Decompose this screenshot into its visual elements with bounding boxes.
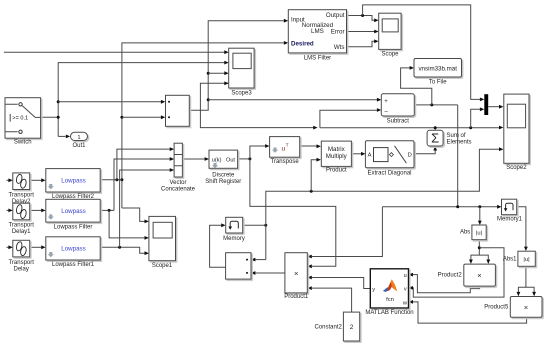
svg-text:|u|: |u| [523,257,529,263]
svg-text:Out: Out [226,157,235,163]
block Matrix Multiply (Product) [321,141,351,173]
block LMS Filter [288,10,346,62]
wire: Scope3 port4 net [200,83,313,127]
svg-text:Shift Register: Shift Register [205,179,241,185]
wire: LMS Error to Scope p2 [347,31,375,33]
wire: branch to Subtract plus input [208,99,377,101]
wire: error down to Product1 p1 [312,207,383,257]
block Vector Concatenate [161,143,196,193]
wire: Constant2 up to Product1 p4 [312,288,352,312]
svg-text:Lowpass Filter: Lowpass Filter [54,225,93,231]
wire: TD1 to LPF [30,209,42,211]
svg-text:Multiply: Multiply [326,153,348,160]
svg-text:LMS Filter: LMS Filter [304,56,331,62]
svg-text:Transport: Transport [8,223,34,229]
wire: Abs1 output split into Product5 [518,266,534,292]
wire: LMS Output net [347,16,375,21]
svg-text:T: T [286,143,289,149]
svg-text:Product: Product [326,168,347,174]
block MATLAB Function [365,269,413,316]
node: junction lpf2/vc1 [115,178,118,181]
svg-text:×: × [477,271,481,280]
svg-text:Error: Error [331,28,345,35]
wire: branch to To File [401,68,432,105]
svg-text:fcn: fcn [386,297,394,303]
svg-text:Lowpass Filter1: Lowpass Filter1 [52,262,95,268]
svg-text:Transport: Transport [8,193,34,199]
wire: Transpose to Matrix Multiply [300,145,317,147]
block Product5 [484,297,542,318]
block Transport Delay [8,240,34,272]
svg-text:Vector: Vector [169,180,186,186]
wire: LPF out [100,209,114,211]
block Discrete Shift Register [205,150,241,185]
wire: switch output [41,116,59,118]
wire: LPF1 out [100,247,144,253]
svg-text:Delay1: Delay1 [12,229,31,235]
wire: transport delay stubs [7,179,9,181]
svg-text:Transport: Transport [8,260,34,266]
svg-text:Wts: Wts [334,44,345,51]
wire: down to Scope1 p2 [109,210,145,238]
svg-text:×: × [294,269,298,278]
block Switch [5,98,41,146]
svg-text:Discrete: Discrete [212,172,235,178]
block Abs1 [503,251,535,266]
block Subtract [381,94,414,125]
svg-text:To File: To File [429,80,447,86]
wire: up to Vector Concatenate p1 [117,149,170,180]
svg-text:Lowpass: Lowpass [61,208,85,215]
wire: Product5 out to MATLAB Function w [413,302,527,323]
svg-text:Memory1: Memory1 [497,217,523,223]
block Transport Delay1 [8,203,34,235]
node: junction lpf/scope1p2 [108,209,111,212]
block Scope3 [229,48,254,96]
wire: desired net vertical x=122 to LMS Desired [122,43,284,208]
svg-text:|u|: |u| [476,231,482,237]
block Memory1 [497,199,523,223]
wire: LMS Wts to Scope p3 [347,41,375,47]
node: junction desired net / lowpass2 out [120,178,123,181]
svg-text:MATLAB Function: MATLAB Function [365,310,413,316]
wire: up to Transpose [250,146,265,159]
block Out1 [71,132,88,149]
svg-text:+: + [384,99,388,105]
svg-text:Σ: Σ [431,131,439,146]
svg-text:Out1: Out1 [72,143,86,149]
wire: TD2 to LPF2 [30,179,42,181]
block Memory [223,217,245,242]
wire: Subtract output [414,104,457,106]
svg-text:A: A [368,152,372,158]
block Constant2 [314,312,359,341]
wire: blank block out to Memory [210,225,226,267]
block Lowpass Filter [46,199,100,230]
svg-text:Subtract: Subtract [387,118,410,124]
svg-text:2: 2 [350,324,354,331]
block Transport Delay2 [8,173,34,205]
wire: Product2 out to MATLAB Function u [413,275,480,293]
wire: error down [457,105,459,207]
svg-text:Abs1: Abs1 [503,257,517,263]
node: junction LMS input net / Scope3 p3 [207,72,210,75]
svg-text:Scope3: Scope3 [231,91,252,97]
block Mux [484,94,488,115]
svg-text:Sum of: Sum of [447,133,466,139]
wire: source line to Scope3 port1 [4,51,225,53]
block Scope2 [504,94,529,171]
node: junction switch net at switch output [57,116,60,119]
block Lowpass Filter2 [46,169,100,201]
block Sum of Elements [427,130,471,146]
wire: TD to LPF1 [30,246,42,248]
wire: v net from Abs to MATLAB Function v [413,248,504,297]
wire: switch net to mux2 port1 [58,101,161,103]
block To File [414,59,462,86]
wire: staircase to Scope1 port1 [122,208,145,221]
svg-text:Product1: Product1 [284,294,309,300]
wire: Product1 out to blank block p2 [256,272,285,274]
svg-text:Abs: Abs [460,230,470,236]
svg-text:Product2: Product2 [438,272,463,278]
wire: error horizontal to Memory1 [382,206,497,208]
svg-text:y: y [372,287,375,293]
svg-text:>= 0.1: >= 0.1 [12,116,28,122]
svg-text:Delay: Delay [14,267,29,273]
node: junction switch net upper [57,100,60,103]
wire: branch to Scope3 port3 [208,72,225,74]
block Transpose [270,137,300,165]
wire: to Out1 [58,135,65,137]
svg-text:LMS: LMS [311,28,324,35]
svg-text:u: u [404,273,407,279]
block Scope1 [149,216,176,269]
wire: down to Product1 p2 [250,159,336,266]
wire: MATLAB Function y out to Product1 p3 [312,278,371,289]
wire: up to Vector Concatenate p2 [114,159,170,210]
svg-text:Transpose: Transpose [271,159,300,165]
wire: mux to Scope2 p1 [488,106,499,108]
svg-text:1: 1 [77,135,80,141]
svg-text:×: × [524,303,528,312]
wire: LPF2 out [100,179,122,181]
node: junction lpf1/vc3 [118,246,121,249]
svg-text:Constant2: Constant2 [314,325,342,331]
node: junction desired net / mux2 port2 [120,116,123,119]
wire: mux2 output up to LMS Input [189,21,283,111]
wire: error branch down into Abs [479,207,481,221]
svg-text:Lowpass: Lowpass [61,178,85,185]
wire: Sum of Elements output net [320,128,499,131]
svg-text:Scope1: Scope1 [152,263,173,269]
svg-text:Memory: Memory [223,236,245,242]
svg-text:Lowpass: Lowpass [61,246,85,253]
wire: branch to mux2 port2 [122,116,161,118]
svg-text:vnsim33b.mat: vnsim33b.mat [418,65,457,72]
svg-text:Product5: Product5 [484,305,509,311]
svg-text:Concatenate: Concatenate [161,187,196,193]
svg-text:Elements: Elements [447,140,472,146]
svg-text:Switch: Switch [14,140,32,146]
block blank (unlabeled) [226,253,251,279]
wire: DSR out branch [238,158,250,160]
svg-text:D: D [408,152,412,158]
block Product1 [284,253,309,300]
wire: Abs output split into Product2 [471,240,488,260]
svg-text:u(k): u(k) [212,157,222,163]
block Lowpass Filter1 [46,237,100,268]
block Abs [460,225,486,240]
svg-text:Scope: Scope [381,51,399,57]
svg-text:Scope2: Scope2 [506,165,527,171]
wire: Memory1 out down to Abs1 [517,207,526,247]
wire: up to Vector Concatenate p3 [120,170,170,247]
block Product2 [438,264,496,286]
svg-text:v: v [404,286,407,292]
svg-text:Output: Output [326,12,345,19]
wire: Memory out net [243,224,266,226]
block mux2 (unlabeled 2-input block) [166,95,190,126]
wire: MM to Extract Diagonal [352,153,362,155]
wire: switch net vertical and to Scope3 port2 [58,63,225,137]
wire: VC out to DSR [183,158,205,160]
wire: ED out up into Sum of Elements [414,150,435,154]
block Extract Diagonal [365,141,414,177]
block Scope [379,13,401,57]
svg-text:Extract Diagonal: Extract Diagonal [367,170,411,176]
svg-text:Desired: Desired [291,41,314,48]
node: junction LMS input net / subtract plus [207,98,210,101]
